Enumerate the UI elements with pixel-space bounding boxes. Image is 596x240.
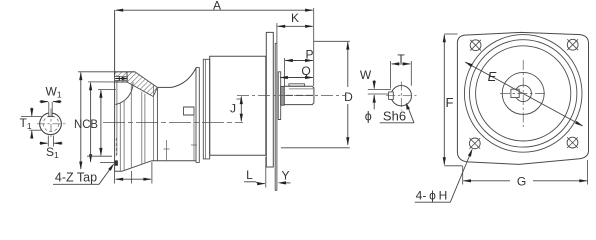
shaft spacer	[278, 72, 281, 120]
G extension right	[587, 160, 589, 185]
housing internal step line 4	[141, 92, 143, 165]
dimension W arrows	[373, 80, 376, 109]
hidden tap hole line	[115, 138, 117, 158]
extension line D top	[314, 40, 350, 42]
S1 extension lines	[48, 136, 53, 147]
label S1	[46, 145, 59, 160]
dimension B line	[99, 89, 102, 156]
label P	[305, 48, 313, 62]
4-Z Tap underline and leader	[53, 163, 114, 184]
housing internal step line 5	[144, 94, 146, 163]
output section centerline h	[37, 123, 66, 125]
label J	[230, 99, 241, 116]
svg-text:S1: S1	[46, 145, 59, 160]
label 4-phiH	[416, 189, 448, 203]
motor flange plate	[266, 32, 273, 167]
gear housing cylinder top	[157, 86, 171, 88]
extension line B top	[98, 88, 116, 90]
mounting lug on housing	[184, 107, 195, 115]
dimension G line	[463, 179, 588, 182]
label 4-Z Tap	[55, 171, 97, 185]
dimension K line	[277, 25, 314, 28]
W extension top	[368, 88, 391, 90]
cone shell (hatched)	[127, 72, 157, 97]
svg-text:W1: W1	[46, 85, 62, 100]
output shaft section circle	[40, 113, 62, 134]
bore fillet arc	[116, 82, 134, 104]
cone bottom outline	[115, 161, 152, 172]
front bore key square	[511, 89, 519, 97]
extension line shaft end	[313, 8, 315, 86]
extension line D bottom	[281, 147, 350, 149]
keyway slot channel	[115, 77, 128, 81]
spacer ring inner line	[205, 59, 207, 159]
input section centerline h	[386, 95, 416, 97]
front flange outline	[457, 32, 588, 164]
dimension Y arrow	[278, 181, 291, 184]
extension tick right	[151, 162, 153, 184]
gear housing cylinder bottom	[152, 160, 196, 162]
svg-text:A: A	[213, 0, 221, 12]
G extension left	[462, 166, 464, 185]
svg-text:ϕ: ϕ	[429, 189, 436, 203]
adapter plate	[196, 68, 199, 163]
svg-text:NCB: NCB	[74, 117, 98, 131]
labels N C B	[74, 117, 98, 131]
extension line P left	[283, 58, 285, 86]
output axis centerline	[103, 121, 243, 123]
dimension P line	[285, 59, 314, 62]
label Y	[281, 169, 289, 183]
spacer ring	[203, 59, 209, 159]
T extension right	[410, 61, 412, 86]
dimension F line	[443, 34, 446, 166]
label G	[517, 175, 526, 189]
label D	[344, 90, 353, 104]
front circle mid	[470, 40, 577, 147]
input axis centerline	[237, 94, 346, 96]
cylinder front edge	[156, 87, 158, 160]
keyway leader arrow	[115, 76, 128, 81]
dimension N line	[79, 72, 82, 170]
4-phiH underline and leader	[415, 148, 473, 202]
svg-text:F: F	[446, 95, 454, 110]
svg-text:H: H	[439, 189, 448, 203]
label K	[291, 11, 299, 25]
T1 extension bottom	[30, 129, 43, 131]
svg-text:W: W	[360, 68, 372, 82]
input section centerline v	[400, 82, 402, 111]
front bearing circle	[502, 72, 544, 114]
dimension J line	[240, 96, 243, 122]
shaft key	[289, 84, 305, 86]
bolt hole bottom-left	[469, 138, 480, 149]
extension line L	[265, 157, 267, 188]
svg-text:Sh6: Sh6	[383, 109, 406, 124]
dimension T1 arrows	[30, 108, 33, 139]
svg-text:T: T	[397, 52, 405, 66]
W extension bottom	[368, 93, 389, 95]
svg-text:G: G	[517, 175, 526, 189]
svg-text:4-: 4-	[416, 189, 427, 203]
input shaft section circle	[391, 86, 411, 106]
front centerline h	[500, 92, 547, 94]
cone-cylinder junction	[153, 85, 155, 161]
dimension L leader	[244, 182, 266, 185]
label A	[213, 0, 221, 12]
svg-text:K: K	[291, 11, 299, 25]
thin mounting plate	[275, 43, 277, 190]
front centerline v	[522, 60, 524, 127]
label W1	[46, 85, 62, 100]
svg-text:P: P	[305, 48, 313, 62]
extension tick mid	[131, 171, 133, 184]
dimension D line	[346, 41, 349, 145]
svg-text:T1: T1	[20, 116, 32, 131]
extension line K left	[276, 23, 278, 43]
svg-text:ϕ: ϕ	[365, 110, 372, 124]
dimension C line	[89, 82, 92, 163]
svg-text:L: L	[246, 168, 253, 182]
label T1	[20, 116, 32, 131]
bottom flange dimension	[115, 178, 152, 181]
input shaft	[284, 86, 314, 104]
extension line C top	[88, 81, 127, 83]
output flange face inner line	[116, 75, 118, 155]
output shaft hidden circle	[43, 116, 59, 132]
front circle pilot	[476, 46, 571, 141]
T1 extension top	[21, 116, 43, 118]
label E	[488, 69, 497, 84]
svg-text:4-Z Tap: 4-Z Tap	[55, 171, 97, 185]
bolt hole bottom-right	[567, 137, 578, 148]
output section centerline v	[50, 109, 52, 140]
extension flange face bottom	[114, 171, 116, 183]
top fillet curve	[172, 68, 197, 88]
svg-text:J: J	[230, 102, 236, 116]
dimension S1 arrows	[40, 142, 63, 145]
phi Sh6 underline and leader	[380, 103, 414, 123]
svg-text:D: D	[344, 90, 353, 104]
shaft keyseat line	[289, 88, 314, 90]
shaft boss	[281, 86, 285, 105]
svg-text:Q: Q	[301, 64, 310, 78]
dimension W1 arrows	[40, 100, 62, 103]
extension line C bottom	[100, 162, 115, 164]
tap hole section	[115, 161, 118, 166]
dimension Q line	[280, 76, 314, 79]
bolt hole top-left	[470, 40, 481, 51]
gearbox output flange face	[114, 10, 116, 171]
extension line N top	[78, 71, 135, 73]
label Q	[301, 64, 310, 78]
keyway block (hatched)	[115, 72, 127, 82]
shaft hidden center line	[286, 94, 314, 96]
dimension E line	[465, 62, 584, 126]
extension line B bottom	[87, 155, 112, 157]
F extension bottom	[444, 165, 462, 167]
label W	[360, 68, 372, 82]
F extension top	[444, 33, 457, 35]
housing internal step line 1	[119, 103, 121, 171]
housing internal step line 3	[130, 85, 132, 169]
hidden bolt line with tick	[164, 140, 170, 161]
dimension T line	[391, 62, 411, 65]
label T	[397, 52, 405, 66]
label phi Sh6	[365, 109, 406, 124]
hidden bolt line 2 with tick	[191, 116, 197, 161]
svg-text:Y: Y	[281, 169, 289, 183]
motor body	[210, 56, 266, 155]
bolt hole top-right	[567, 39, 578, 50]
front circle outer	[464, 35, 582, 153]
label F	[446, 95, 454, 110]
svg-text:E: E	[488, 69, 497, 84]
front bore circle	[515, 85, 531, 101]
input section key square	[389, 92, 394, 100]
T extension left	[390, 61, 392, 89]
housing internal step line 2	[123, 100, 125, 170]
output keyway slot	[48, 102, 54, 117]
label L	[246, 168, 253, 182]
dimension A line	[115, 9, 314, 12]
